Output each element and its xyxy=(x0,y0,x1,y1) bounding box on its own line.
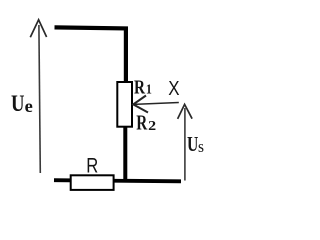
svg-text:e: e xyxy=(25,96,33,116)
resistor R xyxy=(71,175,114,190)
voltage arrow Ue xyxy=(30,20,46,173)
wire bottom horizontal xyxy=(54,180,181,181)
label Us xyxy=(187,132,204,156)
svg-text:R: R xyxy=(136,110,148,134)
svg-text:U: U xyxy=(187,132,198,156)
label R2 xyxy=(136,110,156,134)
wire top horizontal with right-angle drop to potentiometer xyxy=(55,27,126,82)
label R1 xyxy=(134,76,152,98)
potentiometer body (R1/R2) xyxy=(117,82,132,127)
svg-text:s: s xyxy=(198,137,204,156)
svg-text:1: 1 xyxy=(146,82,152,97)
svg-text:R: R xyxy=(86,153,98,177)
wiper arrow X (points left into potentiometer) xyxy=(133,96,179,113)
label Ue xyxy=(11,91,33,116)
svg-text:R: R xyxy=(134,76,145,98)
voltage arrow Us xyxy=(178,104,193,180)
wire vertical from potentiometer bottom to bottom wire xyxy=(123,127,127,182)
svg-text:U: U xyxy=(11,91,25,116)
svg-text:X: X xyxy=(168,78,179,100)
svg-text:2: 2 xyxy=(148,119,156,134)
